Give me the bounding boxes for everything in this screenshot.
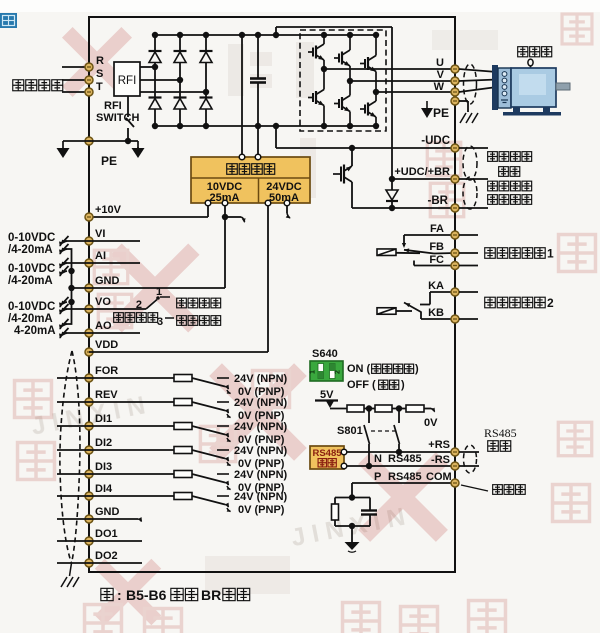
svg-text:FOR: FOR <box>95 365 118 377</box>
terminal DO2 <box>85 550 118 567</box>
node B <box>392 405 406 411</box>
wire DC- link to -UDC <box>273 123 279 148</box>
wire +10V row <box>89 206 208 217</box>
svg-text:+UDC/+BR: +UDC/+BR <box>394 166 450 178</box>
wire -UDC row <box>276 145 455 151</box>
label 24V/0V FOR <box>227 373 288 398</box>
PSU output pin 24V <box>265 200 271 206</box>
terminal DI2 <box>85 437 112 454</box>
terminal motor PE <box>451 97 459 105</box>
svg-text:FA: FA <box>430 223 444 235</box>
wire REV left stub <box>57 401 89 403</box>
svg-text:-BR: -BR <box>428 195 449 207</box>
terminal DI3 <box>85 461 112 478</box>
rectifier diode D6 (lower) <box>200 92 213 129</box>
svg-text:RS485: RS485 <box>484 426 517 440</box>
terminal AI <box>85 250 106 267</box>
svg-text:DI3: DI3 <box>95 461 112 473</box>
svg-text:1: 1 <box>310 370 317 374</box>
terminal FOR <box>85 365 118 382</box>
relay RY1 coil <box>377 249 396 256</box>
svg-text:S640: S640 <box>312 348 338 360</box>
label -RS <box>431 454 450 466</box>
label 0-10VDC /4-20mA AI <box>8 263 55 287</box>
digital cable shield <box>60 351 80 563</box>
wire GND lower <box>57 517 144 523</box>
wire DI4 left stub <box>57 495 89 497</box>
wire RFI to rectifier R phase <box>140 64 158 70</box>
terminal VDD <box>85 339 118 356</box>
label +RS <box>428 439 450 451</box>
terminal FB <box>429 241 459 257</box>
wire VI <box>62 240 140 242</box>
relay RY2 contact <box>396 292 455 319</box>
svg-text:0-10VDC: 0-10VDC <box>8 263 55 275</box>
terminal PE <box>85 137 93 145</box>
svg-text:GND: GND <box>95 506 120 518</box>
terminal REV <box>85 389 118 406</box>
wire motor ground <box>459 101 468 112</box>
wire FOR row <box>89 377 174 379</box>
terminal VI <box>85 228 105 245</box>
wire -RS stub <box>459 465 479 467</box>
svg-text::: : <box>117 587 122 603</box>
label 0-10VDC /4-20mA VI <box>8 232 55 256</box>
rectifier diode D2 (upper) <box>174 32 187 80</box>
svg-text:24V (NPN): 24V (NPN) <box>234 445 288 457</box>
label N RS485 <box>374 453 422 465</box>
wire FA stub <box>459 234 478 236</box>
svg-text:DI4: DI4 <box>95 483 113 495</box>
svg-text:0V: 0V <box>424 417 438 429</box>
transistor Q6 (lower IGBT) <box>360 92 379 129</box>
svg-text:/4-20mA: /4-20mA <box>8 275 53 287</box>
terminal COM <box>451 479 459 487</box>
DC+ bus wire <box>155 34 376 36</box>
wire DO1 <box>57 540 142 542</box>
label 继电器输出1 relay output 1 <box>485 247 554 261</box>
svg-text:GND: GND <box>95 275 120 287</box>
label OFF 开路 <box>347 379 405 391</box>
switch S801 <box>337 409 400 467</box>
RFI filter box <box>114 62 140 96</box>
svg-text:2: 2 <box>547 296 554 310</box>
svg-text:VO: VO <box>95 296 111 308</box>
RS485 interface box <box>310 446 344 469</box>
inverter module dashed box <box>300 30 386 131</box>
svg-text:ON (: ON ( <box>347 363 371 375</box>
DIP switch S640 <box>310 348 344 381</box>
wire 5V chain <box>330 408 347 410</box>
ground RC network <box>345 526 360 552</box>
svg-text:/4-20mA: /4-20mA <box>8 313 53 325</box>
terminal +RS <box>451 448 459 456</box>
capacitor C1 DC bus <box>250 32 266 157</box>
node phase W <box>373 89 379 95</box>
DC- bus wire <box>155 125 376 127</box>
label 24V/0V DI1 <box>227 421 288 446</box>
svg-text:24V (NPN): 24V (NPN) <box>234 469 288 481</box>
wire DI2 row <box>89 449 174 451</box>
wire +UDC/+BR row <box>392 178 455 180</box>
transistor Q5 (lower IGBT) <box>334 81 353 129</box>
PSU output pin 10V common <box>222 200 228 206</box>
svg-text:DO2: DO2 <box>95 550 118 562</box>
terminal +10V <box>85 204 122 221</box>
label -BR <box>428 195 449 207</box>
svg-text:VI: VI <box>95 228 105 240</box>
rectifier diode D5 (lower) <box>174 80 187 129</box>
wire RFI to rectifier S phase <box>140 77 183 83</box>
wire -UDC stub <box>459 147 488 149</box>
svg-text:KA: KA <box>428 280 444 292</box>
switching power supply 开关电源 <box>191 157 310 204</box>
ground PE external <box>57 141 70 158</box>
svg-text:DO1: DO1 <box>95 528 118 540</box>
svg-text:REV: REV <box>95 389 118 401</box>
svg-text:RFI: RFI <box>104 100 122 112</box>
label 24V/0V REV <box>227 397 288 422</box>
RS485 box pin P <box>341 463 347 469</box>
svg-text:PE: PE <box>433 106 449 120</box>
switch REV <box>192 402 231 414</box>
terminal S <box>85 68 103 84</box>
relay RY2 coil <box>377 308 396 315</box>
resistor R-FOR <box>174 375 192 382</box>
wire -RS row <box>347 463 455 469</box>
svg-text:PE: PE <box>101 154 117 168</box>
label 输入电源 input power <box>13 80 63 91</box>
svg-text:N: N <box>374 453 382 465</box>
terminal KA <box>428 280 459 296</box>
label 跳线开关 jumper <box>114 313 158 323</box>
svg-text:2: 2 <box>335 370 342 374</box>
PSU output pin +10V <box>205 200 211 206</box>
wire VO <box>62 308 146 310</box>
cable shield RS485 <box>464 445 477 473</box>
wire KB stub <box>459 318 478 320</box>
power 5V <box>315 389 338 408</box>
wire RFI to rectifier T phase <box>140 89 209 95</box>
rectifier diode D4 (lower) <box>149 67 162 129</box>
wire PE row <box>63 138 138 144</box>
wire FC stub <box>459 265 478 267</box>
svg-text:COM: COM <box>426 471 452 483</box>
transistor Q4 (lower IGBT) <box>308 69 327 129</box>
shield wire arrow y249 <box>58 244 69 255</box>
diode D7 brake <box>386 176 398 208</box>
wire to 0V <box>424 408 438 429</box>
svg-text:5V: 5V <box>320 389 334 401</box>
shield wire arrow y333 <box>58 328 69 339</box>
wire FOR left stub <box>57 377 89 379</box>
resistor R3 RS485 <box>406 405 424 412</box>
wire -BR row <box>352 205 455 211</box>
switch DI3 <box>192 474 231 486</box>
svg-text:24V (NPN): 24V (NPN) <box>234 373 288 385</box>
PSU output pin 24V aux <box>284 200 290 206</box>
svg-text:24V (NPN): 24V (NPN) <box>234 491 288 503</box>
svg-text:24V (NPN): 24V (NPN) <box>234 421 288 433</box>
transistor Q1 (upper IGBT) <box>308 32 327 69</box>
svg-text:U: U <box>436 57 444 69</box>
svg-text:V: V <box>437 69 445 81</box>
resistor R-REV <box>174 399 192 406</box>
switch DI2 <box>192 450 231 462</box>
svg-text:AO: AO <box>95 320 112 332</box>
wire motor V <box>459 80 497 82</box>
svg-text:BR: BR <box>201 587 221 603</box>
RFI switch contact <box>126 96 134 141</box>
resistor R-DI2 <box>174 447 192 454</box>
wire T input <box>62 91 89 93</box>
svg-text:-RS: -RS <box>431 454 450 466</box>
svg-text:+RS: +RS <box>428 439 450 451</box>
label 24V/0V DI3 <box>227 469 288 494</box>
label P RS485 COM <box>374 471 452 483</box>
svg-text:1: 1 <box>156 286 162 298</box>
shield wire arrow y263 <box>58 258 69 269</box>
label 电流输出 current output <box>177 316 221 326</box>
wire COM row <box>352 483 455 498</box>
wire S input <box>62 79 89 81</box>
ground motor cable shield <box>460 113 478 123</box>
svg-text:): ) <box>401 379 405 391</box>
wire FB stub <box>459 252 478 254</box>
wire DC+ link over inverter <box>273 27 392 179</box>
wire DI3 left stub <box>57 473 89 475</box>
decorative watermark layer <box>29 30 498 594</box>
shield wire arrow y309 <box>58 304 69 315</box>
inverter enclosure frame <box>89 17 455 572</box>
motor cable shield <box>464 64 477 104</box>
wire DI1 left stub <box>57 425 89 427</box>
svg-text:/4-20mA: /4-20mA <box>8 244 53 256</box>
label -UDC <box>421 135 450 147</box>
wire AI <box>62 262 140 264</box>
terminal FA <box>430 223 459 239</box>
wire +UDC stub <box>459 178 488 180</box>
transistor Q2 (upper IGBT) <box>334 32 353 81</box>
wire 24V to VDD <box>267 206 269 352</box>
svg-text:2: 2 <box>136 299 142 311</box>
svg-text:24V (NPN): 24V (NPN) <box>234 397 288 409</box>
svg-text:S801: S801 <box>337 425 363 437</box>
wire U output <box>324 68 455 70</box>
label 制动电阻接线端子 brake resistor terminals <box>488 181 532 204</box>
label 电动机 motor <box>518 47 552 68</box>
svg-text:0-10VDC: 0-10VDC <box>8 232 55 244</box>
terminal DI4 <box>85 483 113 500</box>
label +UDC/+BR <box>394 166 450 178</box>
shield wire arrow y241 <box>58 236 69 247</box>
svg-text:0V (PNP): 0V (PNP) <box>238 504 285 516</box>
ground PE inside (motor side) <box>421 101 449 120</box>
shield wire arrow y324 <box>58 319 69 330</box>
wire REV row <box>89 401 174 403</box>
transistor Q7 brake IGBT <box>333 148 353 208</box>
label 直流母线端子 DC bus terminals <box>488 152 532 177</box>
svg-text:P: P <box>374 471 381 483</box>
RFI SWITCH label <box>96 100 139 124</box>
svg-text:DI1: DI1 <box>95 413 112 425</box>
rectifier diode D3 (upper) <box>200 32 213 92</box>
label 电压输出 voltage output <box>177 298 221 308</box>
label RS485 通信 <box>484 426 517 451</box>
terminal DI1 <box>85 413 112 430</box>
svg-text:AI: AI <box>95 250 106 262</box>
cable shield DC bus <box>463 146 477 209</box>
terminal -RS <box>451 462 459 470</box>
svg-text:RFI: RFI <box>118 75 137 87</box>
svg-text:FB: FB <box>429 241 444 253</box>
svg-text:RS485: RS485 <box>388 471 422 483</box>
wire DI4 row <box>89 495 174 497</box>
label 24V/0V DI4 <box>227 491 288 516</box>
wire GND row <box>72 287 226 289</box>
RS485 box pin N <box>341 449 347 455</box>
relay RY1 contact <box>396 235 455 266</box>
svg-text:B5-B6: B5-B6 <box>126 587 167 603</box>
wire VDD row <box>89 351 268 353</box>
wire -BR stub <box>459 207 488 209</box>
wire +RS row <box>347 449 455 455</box>
shield wire arrow y302 <box>58 297 69 308</box>
PSU input pin 1 <box>239 154 245 160</box>
label 24V/0V DI2 <box>227 445 288 470</box>
wire AO <box>62 332 140 334</box>
svg-text:VDD: VDD <box>95 339 118 351</box>
label PE <box>101 154 117 168</box>
svg-text:+10V: +10V <box>95 204 122 216</box>
svg-text:FC: FC <box>429 254 444 266</box>
svg-text:-UDC: -UDC <box>421 135 450 147</box>
wire W output <box>376 91 455 93</box>
label 继电器输出2 relay output 2 <box>485 296 554 310</box>
terminal DO1 <box>85 528 118 545</box>
wire V output <box>350 80 455 82</box>
wire 10V common to GND <box>222 206 247 288</box>
svg-text:0-10VDC: 0-10VDC <box>8 301 55 313</box>
terminal T <box>85 81 103 96</box>
resistor R-DI1 <box>174 423 192 430</box>
node phase V <box>347 78 353 84</box>
resistor R-DI3 <box>174 471 192 478</box>
ground digital shield <box>61 563 79 587</box>
page icon 图 <box>0 13 17 28</box>
svg-text:W: W <box>434 81 445 93</box>
terminal AO <box>85 320 112 337</box>
wire DI1 row <box>89 425 174 427</box>
svg-text:T: T <box>96 81 103 93</box>
RC terminator network <box>332 494 378 529</box>
svg-text:4-20mA: 4-20mA <box>14 325 56 337</box>
ground PE internal <box>132 141 145 158</box>
motor M <box>492 65 570 116</box>
terminal W <box>434 81 459 96</box>
label ON 终端电阻 <box>347 363 419 375</box>
jumper switch VO <box>136 286 174 328</box>
svg-text:): ) <box>415 363 419 375</box>
terminal -UDC <box>451 144 459 152</box>
node A <box>364 405 375 411</box>
svg-text:OFF (: OFF ( <box>347 379 376 391</box>
analog shield bus <box>63 249 75 324</box>
note latin part <box>126 587 250 603</box>
wire DC+ to PSU input <box>239 32 245 157</box>
svg-text:1: 1 <box>547 247 554 261</box>
wire DI2 left stub <box>57 449 89 451</box>
wire KA stub <box>459 291 478 293</box>
wire 24V aux arrow <box>286 206 292 220</box>
node phase U <box>321 66 327 72</box>
terminal GND <box>85 275 120 292</box>
label 0-10VDC /4-20mA 4-20mA VO AO <box>8 301 56 337</box>
resistor R1 RS485 <box>347 405 364 412</box>
svg-text:R: R <box>96 55 104 67</box>
resistor R-DI4 <box>174 493 192 500</box>
svg-text:KB: KB <box>428 307 444 319</box>
svg-text:RS485: RS485 <box>312 448 342 459</box>
label 屏蔽线 shielded wire <box>461 485 525 495</box>
PSU input pin 2 <box>255 154 261 160</box>
svg-text:S: S <box>96 68 103 80</box>
wire DI3 row <box>89 473 174 475</box>
terminal GND lower <box>85 506 120 523</box>
terminal VO <box>85 296 111 313</box>
svg-text:SWITCH: SWITCH <box>96 112 139 124</box>
terminal FC <box>429 254 459 270</box>
terminal R <box>85 55 104 71</box>
wire DO2 <box>57 562 142 564</box>
wire +RS stub <box>459 451 479 453</box>
terminal U <box>436 57 459 73</box>
svg-text:RS485: RS485 <box>388 453 422 465</box>
terminal KB <box>428 307 459 323</box>
switch DI4 <box>192 496 231 508</box>
terminal +UDC/+BR <box>451 175 459 183</box>
terminal V <box>437 69 459 85</box>
wire motor W <box>459 87 497 92</box>
transistor Q3 (upper IGBT) <box>360 32 379 92</box>
resistor R2 RS485 <box>375 405 392 412</box>
shield wire arrow y271 <box>58 266 69 277</box>
terminal -BR <box>451 204 459 212</box>
svg-text:DI2: DI2 <box>95 437 112 449</box>
switch DI1 <box>192 426 231 438</box>
rectifier diode D1 (upper) <box>149 32 162 67</box>
wire motor U <box>459 69 497 72</box>
wire R input <box>62 66 89 68</box>
switch FOR <box>192 378 231 390</box>
note 注:B5-B6没有BR端子 <box>101 587 122 603</box>
